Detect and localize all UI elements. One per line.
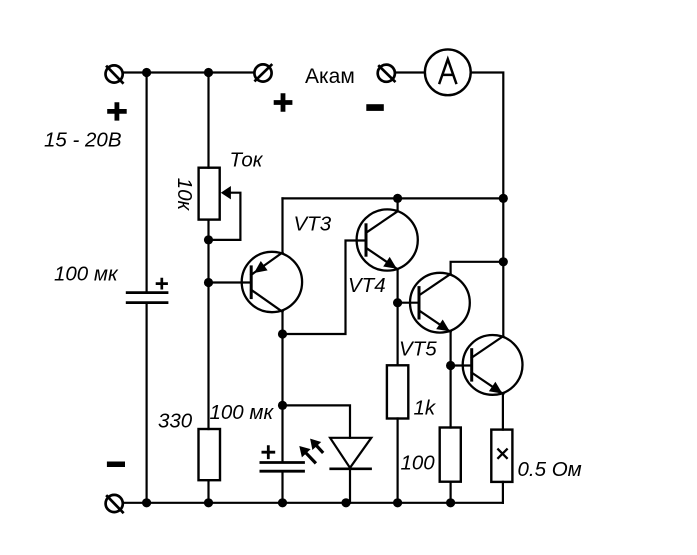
svg-text:VT5: VT5 [399, 338, 437, 361]
svg-text:0.5 Ом: 0.5 Ом [518, 458, 582, 481]
node: right column junction top [499, 194, 508, 203]
terminal X1 (+ input) [106, 65, 123, 82]
transistor VT3 (PNP) [242, 252, 302, 312]
svg-text:Акам: Акам [305, 65, 355, 88]
LED VD1 [329, 438, 372, 469]
minus sign right (battery polarity) [366, 104, 384, 111]
resistor R3 1k [387, 365, 408, 418]
plus sign left (input polarity) [107, 102, 127, 120]
wire C2 bottom [281, 473, 283, 503]
svg-text:10к: 10к [173, 178, 196, 212]
svg-text:100: 100 [401, 452, 436, 475]
R5 cross mark [497, 449, 507, 459]
wire bottom rail [123, 502, 503, 504]
C1 plus sign [156, 278, 168, 290]
wire LED cathode down [349, 469, 351, 503]
svg-text:VT3: VT3 [294, 212, 332, 235]
capacitor C1 100uF plates [126, 293, 169, 303]
wire battery terminal to ammeter [396, 71, 425, 73]
node: VT5 base junction [393, 298, 402, 307]
node: VT3 base junction [204, 278, 213, 287]
resistor R2 330 [199, 429, 221, 480]
wire R4 bottom [450, 482, 452, 503]
wire VT6 base [451, 364, 472, 366]
minus sign left bottom [107, 462, 125, 468]
node: VT3 collector junction [278, 329, 287, 338]
node: VT4 collector junction [393, 194, 402, 203]
LED emission arrows [299, 439, 322, 463]
node: junction top pot column [204, 68, 213, 77]
node: bottom rail junctions [142, 498, 151, 507]
node: collector join right column [499, 257, 508, 266]
terminal X2 (+ output) [254, 64, 271, 81]
wire inner top rail [283, 197, 504, 199]
node: wiper junction [204, 235, 213, 244]
wire left rail upper [146, 73, 148, 292]
wire pot column top [207, 73, 209, 168]
potentiometer wiper arrow [210, 186, 240, 240]
svg-text:330: 330 [158, 410, 193, 433]
wire R2 bottom [207, 480, 209, 503]
resistor R5 0.5 Ohm shunt [491, 430, 512, 482]
ammeter PA1 [425, 49, 471, 95]
wire VT6 emitter to R5 [502, 394, 504, 430]
svg-text:100 мк: 100 мк [210, 401, 275, 424]
wire top rail [124, 71, 254, 73]
svg-text:VT4: VT4 [348, 274, 386, 297]
wire VT3 collector down [281, 312, 283, 462]
terminal X3 (battery -) [378, 65, 395, 82]
wire VT3 emitter up [281, 198, 283, 252]
wire LED branch [283, 405, 351, 437]
wire R3 bottom [397, 419, 399, 503]
transistor VT6 (NPN) [463, 335, 523, 395]
wire VT4 emitter down to R3 [397, 269, 399, 365]
svg-text:15 - 20В: 15 - 20В [44, 129, 122, 152]
wire VT5 base [398, 302, 419, 304]
node: junction top-left rail [142, 68, 151, 77]
node: LED tap junction [278, 401, 287, 410]
capacitor C2 100uF plates [260, 463, 305, 472]
wire left rail lower [146, 304, 148, 503]
node: VT6 base junction [446, 361, 455, 370]
wire ammeter to right column [471, 73, 503, 199]
wire right column between junctions [502, 198, 504, 261]
svg-text:Ток: Ток [230, 149, 264, 172]
wire VT5 collector [451, 262, 504, 274]
wire pot bottom to VT3 base column [207, 220, 209, 429]
transistor VT4 (NPN) [357, 209, 418, 270]
wire VT3 collector to VT4 base [283, 241, 367, 335]
resistor R4 100 [440, 428, 461, 482]
transistor VT5 (NPN) [410, 273, 470, 333]
wire R5 bottom [502, 482, 504, 503]
svg-text:100 мк: 100 мк [54, 263, 119, 286]
potentiometer R1 10k body [199, 168, 220, 220]
wire VT6 collector up [502, 262, 504, 336]
C2 plus sign [262, 445, 276, 459]
terminal X4 (- bottom) [106, 495, 123, 512]
svg-text:1k: 1k [414, 397, 437, 420]
wire VT5 emitter down [450, 332, 452, 428]
wire VT4 collector up [397, 198, 399, 211]
plus sign right (output polarity) [274, 93, 293, 112]
wire VT3 base [209, 281, 252, 283]
